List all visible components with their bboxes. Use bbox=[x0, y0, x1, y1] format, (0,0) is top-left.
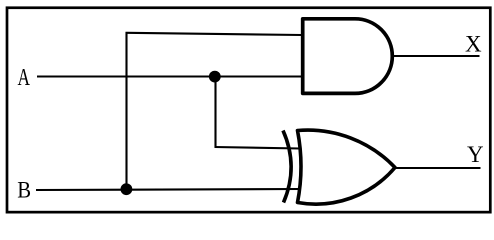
wire to AND top input bbox=[126, 33, 303, 35]
junction on wire A bbox=[209, 71, 221, 83]
svg-text:Y: Y bbox=[467, 142, 484, 167]
junction on wire B bbox=[121, 183, 133, 195]
wire A input bbox=[37, 75, 302, 77]
svg-text:B: B bbox=[17, 178, 31, 203]
wire B input bbox=[36, 189, 300, 190]
wire from B junction up bbox=[125, 32, 127, 190]
svg-text:X: X bbox=[465, 32, 482, 57]
svg-text:A: A bbox=[18, 63, 30, 91]
XOR gate body bbox=[298, 130, 396, 204]
wire AND output to X bbox=[392, 55, 480, 57]
XOR gate input arc bbox=[283, 131, 291, 203]
AND gate bbox=[303, 19, 393, 94]
wire XOR output to Y bbox=[394, 167, 481, 169]
wire from A junction down bbox=[214, 77, 216, 148]
wire to XOR top input bbox=[215, 147, 301, 149]
